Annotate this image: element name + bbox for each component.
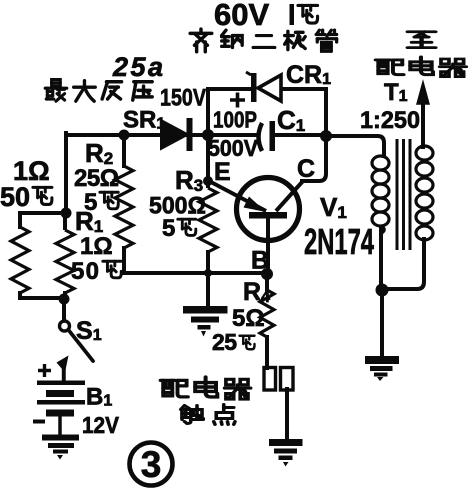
wire base bias bus from R2 bottom to base node xyxy=(124,271,267,275)
node junction dot battery/switch xyxy=(59,294,70,305)
svg-text:5: 5 xyxy=(162,215,175,242)
label R3 xyxy=(175,165,203,195)
wire transformer common junction to ground xyxy=(380,291,384,357)
value label 1:250 turns ratio xyxy=(360,107,420,134)
svg-text:B: B xyxy=(251,247,269,275)
svg-text:5Ω: 5Ω xyxy=(232,305,265,332)
wire junction A horizontal to left shunt resistor xyxy=(20,213,66,227)
value label 2N174 xyxy=(304,221,374,262)
svg-text:25: 25 xyxy=(212,329,237,355)
svg-text:CR1: CR1 xyxy=(286,61,331,89)
svg-text:1Ω: 1Ω xyxy=(80,233,113,260)
wire CR1 anode to right riser down to node B2 xyxy=(281,89,326,136)
transistor V1 collector lead xyxy=(276,181,303,211)
resistor R1 1 ohm 50W xyxy=(56,213,74,293)
label R2 xyxy=(85,138,113,168)
svg-text:R1: R1 xyxy=(75,206,103,236)
svg-text:R2: R2 xyxy=(85,138,113,168)
wire transformer primary bottom to common junction xyxy=(379,229,383,291)
switch S1 fixed contact arrow above battery xyxy=(57,356,69,382)
contact points (distributor breaker) two rectangles xyxy=(264,368,293,391)
svg-text:100P: 100P xyxy=(213,107,257,133)
wire battery negative stem to ground xyxy=(58,416,62,436)
ground under battery xyxy=(42,435,79,460)
label "distributor" (Chinese, lower) xyxy=(161,377,251,399)
label SR1 xyxy=(123,107,165,134)
wire from contact points down to ground xyxy=(285,389,289,440)
svg-text:SR1: SR1 xyxy=(123,107,165,134)
output arrow to distributor xyxy=(417,82,429,104)
value label 500V xyxy=(208,135,259,161)
wire left vertical drop from main bus to R1 junction xyxy=(64,133,68,213)
switch S1 arm xyxy=(69,330,94,361)
battery minus sign xyxy=(33,420,45,424)
svg-text:T1: T1 xyxy=(384,79,408,106)
wire bottom joining shunt resistor and R1 to switch xyxy=(20,293,65,321)
capacitor C1 polarity plus xyxy=(230,93,245,108)
label "contact points" (Chinese) xyxy=(181,405,235,425)
svg-text:C: C xyxy=(297,155,315,183)
svg-text:150V: 150V xyxy=(160,85,206,112)
value label 12V xyxy=(82,412,120,438)
zener diode CR1 (hollow triangle pointing left, cathode bar with hooks) xyxy=(246,72,281,102)
svg-text:50: 50 xyxy=(71,258,99,285)
value label 25W (R4) xyxy=(212,329,255,355)
battery plus sign xyxy=(38,364,51,377)
node B1 junction dot (SR1 cathode / CR1 / C1 / emitter riser) xyxy=(202,129,214,141)
value label 5W (R2) xyxy=(84,189,118,216)
transformer T1 core (3 vertical lines) xyxy=(397,139,410,250)
label R1 xyxy=(75,206,103,236)
node base junction dot xyxy=(261,268,273,280)
svg-text:50: 50 xyxy=(0,182,30,212)
node B2 junction dot (C1 / CR1 / collector / primary) xyxy=(320,130,332,142)
wire collector riser and bend from node B2 to collector xyxy=(302,136,326,181)
node emitter junction dot xyxy=(203,176,213,186)
pin label E (emitter) xyxy=(214,158,231,186)
value label 25 ohm xyxy=(74,165,119,192)
svg-text:S1: S1 xyxy=(76,317,102,345)
label S1 xyxy=(76,317,102,345)
svg-text:R3: R3 xyxy=(175,165,203,195)
label "max reverse voltage" (Chinese) xyxy=(45,80,152,102)
resistor R2 25 ohm 5W xyxy=(115,166,133,248)
value label 150V xyxy=(160,85,206,112)
wire from C1 right plate to node B2 and on to transformer primary top xyxy=(272,135,384,156)
label "to distributor" (Chinese) xyxy=(376,32,467,77)
figure number circled 3 xyxy=(130,443,173,486)
svg-text:2N174: 2N174 xyxy=(304,221,374,262)
value label 5 ohm (R4) xyxy=(232,305,265,332)
svg-text:1:250: 1:250 xyxy=(360,107,420,134)
wire R4 top lead xyxy=(265,274,269,290)
label R4 xyxy=(243,278,270,306)
resistor R3 500 ohm 5W xyxy=(199,181,217,252)
node junction dot R1 top xyxy=(61,208,72,219)
wire switch arm pivot lead is above; battery positive stem xyxy=(62,368,66,381)
wire base lead from transistor to base node xyxy=(266,218,270,274)
label CR1 xyxy=(286,61,331,89)
wire main horizontal bus from left corner to C1 left plate xyxy=(66,133,258,137)
svg-text:25a: 25a xyxy=(112,52,163,82)
svg-text:12V: 12V xyxy=(82,412,120,438)
value label 100P xyxy=(213,107,257,133)
wire R2 bottom lead to base bus xyxy=(122,248,126,273)
node R3 bus crossing dot xyxy=(204,269,212,277)
svg-text:25Ω: 25Ω xyxy=(74,165,119,192)
transistor V1 emitter lead with arrow (PNP, pointing in) xyxy=(209,181,266,212)
value label 1 ohm (R1) xyxy=(80,233,113,260)
value label 500 ohm xyxy=(149,193,206,220)
svg-text:60V: 60V xyxy=(214,0,269,32)
wire R3 bottom lead through bus to ground xyxy=(206,252,210,306)
wire R2 top lead xyxy=(122,135,126,166)
resistor R4 5 ohm 25W xyxy=(260,290,274,337)
transformer T1 secondary winding (right, 6 loops) xyxy=(416,146,433,240)
wire secondary top to output arrow shaft xyxy=(421,100,425,147)
capacitor C1 (left curved plate, right straight plate) xyxy=(259,121,276,151)
value label 50W (left shunt) xyxy=(0,182,52,212)
transistor V1 base bar xyxy=(249,212,287,219)
svg-text:E: E xyxy=(214,158,231,186)
transformer T1 primary winding (left, 5 loops) xyxy=(372,156,389,233)
pin label B (base) xyxy=(251,247,269,275)
value label 5W (R3) xyxy=(162,215,196,242)
svg-text:C1: C1 xyxy=(277,105,305,135)
value label 25a xyxy=(112,52,163,82)
label B1 xyxy=(86,384,112,411)
ground under contact points xyxy=(269,439,303,467)
value label 50W (R1) xyxy=(71,258,121,285)
svg-text:500Ω: 500Ω xyxy=(149,193,206,220)
diode SR1 (silicon rectifier, solid triangle pointing right) xyxy=(161,118,193,151)
value label 60V 1W (zener rating) xyxy=(214,0,318,32)
svg-text:B1: B1 xyxy=(86,384,112,411)
pin label C (collector) xyxy=(297,155,315,183)
svg-text:V1: V1 xyxy=(320,192,347,222)
label V1 xyxy=(320,192,347,222)
battery B1 plates xyxy=(37,381,85,417)
wire R4 bottom lead to contact points xyxy=(265,337,269,368)
node R2 tap junction dot xyxy=(119,130,130,141)
value label 1 ohm (left shunt) xyxy=(13,156,50,186)
wire transformer secondary bottom to common junction xyxy=(382,239,424,289)
ground under transformer xyxy=(365,356,399,381)
wire emitter riser from node B1 down to emitter node xyxy=(206,135,210,181)
resistor 1 ohm 50W shunt (far left) xyxy=(11,227,29,293)
switch S1 pivot circle xyxy=(60,321,70,331)
label C1 xyxy=(277,105,305,135)
value label "zener diode" (Chinese) xyxy=(190,29,337,52)
wire CR1 branch: left riser, top run to cathode xyxy=(208,89,250,135)
node transformer common junction dot xyxy=(376,284,389,297)
label T1 xyxy=(384,79,408,106)
transistor V1 2N174 circle xyxy=(237,178,300,241)
svg-text:3: 3 xyxy=(141,444,162,485)
ground under R3 xyxy=(183,306,228,337)
